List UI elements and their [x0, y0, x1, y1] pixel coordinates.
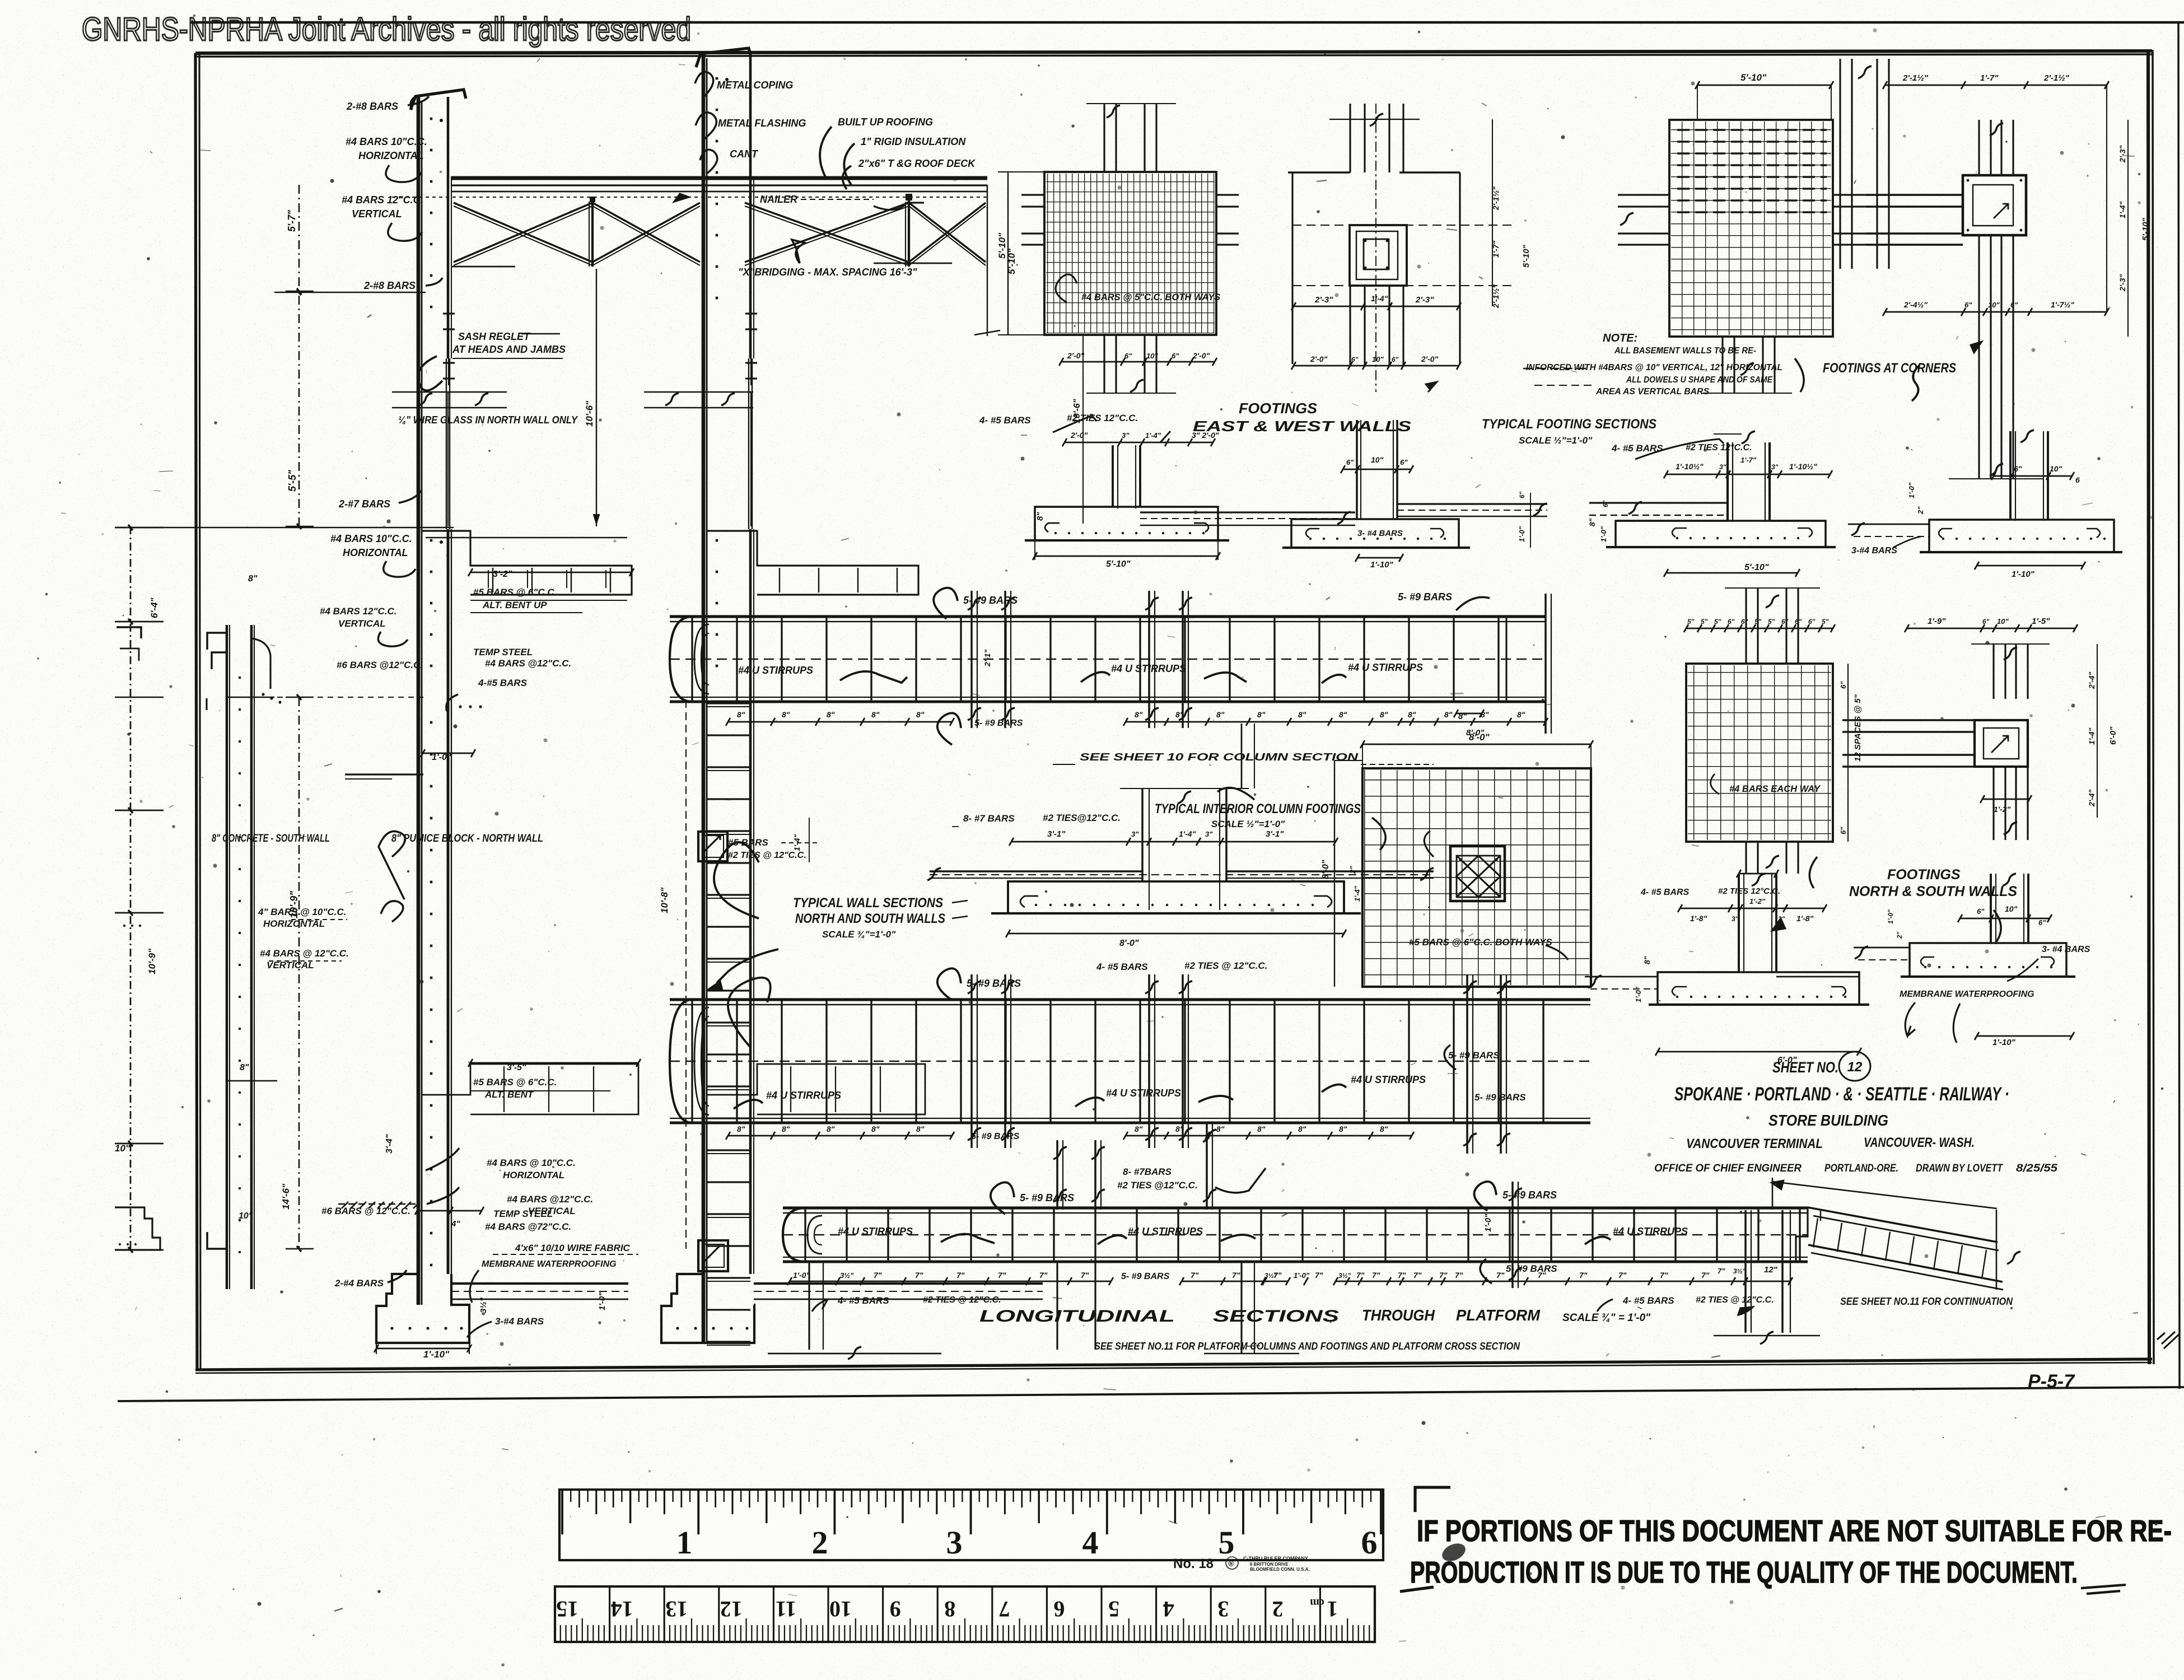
stamp underline mark	[1400, 1587, 1434, 1592]
svg-text:8": 8"	[916, 710, 925, 719]
wall A window glass line	[447, 392, 449, 526]
svg-text:1'-0": 1'-0"	[1294, 1271, 1310, 1280]
svg-text:12": 12"	[1764, 1265, 1778, 1275]
svg-text:IF PORTIONS OF THIS DOCUMENT A: IF PORTIONS OF THIS DOCUMENT ARE NOT SUI…	[1417, 1514, 2172, 1548]
svg-text:5": 5"	[1822, 618, 1829, 626]
wall A floor/dim lines	[274, 292, 426, 293]
svg-text:SEE SHEET NO.11 FOR PLATFORM C: SEE SHEET NO.11 FOR PLATFORM COLUMNS AND…	[1094, 1341, 1520, 1352]
svg-text:11: 11	[776, 1597, 797, 1622]
svg-text:8" PUMICE BLOCK - NORTH WALL: 8" PUMICE BLOCK - NORTH WALL	[391, 833, 543, 844]
svg-text:1'-7": 1'-7"	[1980, 73, 1999, 83]
svg-text:2'-4½": 2'-4½"	[1903, 300, 1928, 309]
svg-text:8": 8"	[737, 710, 745, 719]
wall section A - south wall concrete	[417, 97, 421, 1305]
svg-text:#4 BARS @12"C.C.: #4 BARS @12"C.C.	[507, 1194, 593, 1205]
svg-text:#4 BARS @12"C.C.: #4 BARS @12"C.C.	[485, 658, 571, 669]
svg-text:8": 8"	[1298, 1124, 1306, 1133]
svg-text:6'-0": 6'-0"	[2108, 726, 2118, 745]
svg-text:#2 TIES @ 12"C.C.: #2 TIES @ 12"C.C.	[1184, 960, 1267, 971]
svg-text:8'-0": 8'-0"	[1119, 939, 1139, 948]
svg-text:6: 6	[1361, 1524, 1378, 1561]
plan D2 - east west wall footing outline plan	[1349, 104, 1351, 172]
svg-text:8": 8"	[737, 1124, 745, 1133]
svg-text:2'-0": 2'-0"	[1421, 354, 1439, 363]
wall A rebar dots upper	[430, 118, 433, 120]
svg-text:7": 7"	[1496, 1271, 1505, 1280]
svg-text:#6 BARS @ 12"C.C.: #6 BARS @ 12"C.C.	[321, 1206, 410, 1216]
svg-text:FOOTINGS: FOOTINGS	[1239, 400, 1318, 417]
svg-text:5'-10": 5'-10"	[1744, 563, 1769, 572]
dim 10-6 right of wall A	[596, 269, 597, 526]
interior column footing - wall slab lines	[930, 870, 1142, 872]
svg-text:#4 U STIRRUPS: #4 U STIRRUPS	[1613, 1226, 1688, 1237]
plan I1 right dim	[1847, 664, 1849, 842]
svg-text:2": 2"	[1896, 931, 1903, 939]
wall B lintel at 1900	[707, 1064, 925, 1114]
svg-text:5": 5"	[1701, 618, 1708, 626]
svg-text:#4 U STIRRUPS: #4 U STIRRUPS	[1128, 1226, 1203, 1237]
svg-text:#2 TIES @ 12"C.C.: #2 TIES @ 12"C.C.	[1696, 1295, 1774, 1305]
svg-text:7": 7"	[956, 1271, 965, 1280]
svg-text:7": 7"	[1718, 1267, 1725, 1275]
svg-text:SASH REGLET: SASH REGLET	[458, 331, 531, 342]
svg-text:1: 1	[676, 1524, 693, 1561]
svg-text:8": 8"	[1339, 1124, 1347, 1133]
svg-text:5'-10": 5'-10"	[997, 232, 1007, 259]
svg-text:EAST & WEST WALLS: EAST & WEST WALLS	[1193, 418, 1412, 435]
svg-text:2'-3": 2'-3"	[1415, 295, 1434, 305]
interior column footing - column	[1141, 788, 1144, 881]
svg-text:8/25/55: 8/25/55	[2016, 1163, 2057, 1174]
wall B rebar dots	[716, 77, 718, 80]
svg-text:12: 12	[1847, 1060, 1863, 1075]
svg-text:10": 10"	[1988, 301, 2000, 309]
beam row 3 - platform longitudinal section	[783, 1206, 1808, 1209]
svg-text:VANCOUVER TERMINAL: VANCOUVER TERMINAL	[1686, 1136, 1823, 1151]
svg-text:2'-1": 2'-1"	[983, 649, 992, 667]
svg-text:14: 14	[611, 1597, 633, 1622]
svg-text:8": 8"	[1444, 710, 1453, 719]
svg-text:No. 18: No. 18	[1173, 1556, 1214, 1571]
svg-text:10'-6": 10'-6"	[584, 400, 595, 427]
svg-text:1'-4": 1'-4"	[1179, 829, 1196, 838]
svg-text:#4 BARS EACH WAY: #4 BARS EACH WAY	[1729, 784, 1821, 794]
svg-text:8'-0": 8'-0"	[1466, 728, 1485, 738]
svg-text:DRAWN BY LOVETT: DRAWN BY LOVETT	[1916, 1163, 2003, 1174]
svg-text:#6 BARS @12"C.C.: #6 BARS @12"C.C.	[337, 660, 423, 670]
svg-text:5- #9 BARS: 5- #9 BARS	[1448, 1050, 1500, 1061]
svg-text:8": 8"	[1380, 710, 1388, 719]
svg-text:3": 3"	[1771, 463, 1779, 471]
svg-text:#4 U STIRRUPS: #4 U STIRRUPS	[1351, 1074, 1426, 1085]
svg-text:3": 3"	[1205, 830, 1213, 838]
svg-text:8": 8"	[871, 1124, 880, 1133]
dim 1-9/6/10/6/1-5 row above S5 col	[1739, 873, 1776, 875]
svg-text:5": 5"	[1714, 618, 1721, 626]
svg-text:7": 7"	[1081, 1271, 1089, 1280]
svg-text:1'-7½": 1'-7½"	[2051, 300, 2074, 309]
svg-text:10": 10"	[2050, 464, 2062, 473]
svg-text:1'-8": 1'-8"	[1796, 914, 1814, 923]
svg-text:8": 8"	[871, 710, 880, 719]
svg-text:NAILER: NAILER	[760, 194, 797, 205]
svg-text:5'-7": 5'-7"	[286, 210, 297, 232]
svg-text:3'-4": 3'-4"	[385, 1134, 394, 1154]
svg-text:VERTICAL: VERTICAL	[267, 960, 314, 970]
svg-text:6": 6"	[1795, 618, 1802, 626]
svg-text:10": 10"	[2005, 904, 2018, 913]
svg-text:1'-0": 1'-0"	[1887, 909, 1894, 924]
svg-text:1'-0": 1'-0"	[1599, 526, 1608, 542]
beam row 3 column break right-mid	[1511, 1182, 1514, 1288]
svg-text:14'-6": 14'-6"	[281, 1183, 291, 1210]
svg-text:HORIZONTAL: HORIZONTAL	[343, 547, 408, 558]
platform ramp deck	[1808, 1207, 1998, 1242]
svg-text:BLOOMFIELD CONN. U.S.A.: BLOOMFIELD CONN. U.S.A.	[1250, 1567, 1310, 1572]
svg-text:2-#8 BARS: 2-#8 BARS	[363, 280, 416, 291]
svg-text:2'-3": 2'-3"	[2118, 145, 2127, 163]
svg-text:3": 3"	[1131, 830, 1139, 838]
svg-text:1'-0": 1'-0"	[1907, 482, 1916, 498]
svg-text:#2 TIES@12"C.C.: #2 TIES@12"C.C.	[1043, 813, 1121, 823]
dimension line 5ft-7in / 5ft-5in column	[298, 185, 300, 526]
svg-text:HORIZONTAL: HORIZONTAL	[503, 1170, 564, 1180]
svg-text:4-#5 BARS: 4-#5 BARS	[478, 678, 528, 688]
svg-text:SCALE ¾" = 1'-0": SCALE ¾" = 1'-0"	[1562, 1312, 1651, 1324]
svg-text:6": 6"	[2014, 464, 2022, 473]
svg-text:P-5-7: P-5-7	[2028, 1371, 2075, 1392]
svg-text:2: 2	[812, 1524, 828, 1561]
svg-text:#2 TIES @ 12"C.C.: #2 TIES @ 12"C.C.	[923, 1295, 1001, 1305]
svg-text:"X"BRIDGING - MAX. SPACING 16: "X"BRIDGING - MAX. SPACING 16'-3"	[738, 267, 917, 278]
svg-text:2'-0": 2'-0"	[1192, 351, 1210, 360]
wall section B - 8in pumice block north wall	[702, 54, 706, 1344]
svg-text:7": 7"	[1439, 1271, 1448, 1280]
svg-text:8": 8"	[1035, 512, 1045, 521]
svg-text:HORIZONTAL: HORIZONTAL	[358, 150, 424, 161]
svg-text:1'-2": 1'-2"	[1994, 805, 2011, 814]
svg-text:3½": 3½"	[840, 1271, 854, 1280]
plan E2 dims	[1885, 85, 2107, 86]
svg-text:8'-0": 8'-0"	[1321, 860, 1331, 879]
svg-text:8- #7BARS: 8- #7BARS	[1123, 1166, 1172, 1177]
svg-text:8": 8"	[827, 1124, 835, 1133]
svg-text:10'-8": 10'-8"	[659, 887, 670, 913]
svg-text:6 BRITTON DRIVE: 6 BRITTON DRIVE	[1250, 1562, 1289, 1567]
left margin dimension line	[130, 526, 132, 1252]
row2 right column down	[1206, 1123, 1208, 1210]
svg-text:8": 8"	[827, 710, 835, 719]
svg-text:5'-10": 5'-10"	[1740, 72, 1767, 83]
svg-text:1'-8": 1'-8"	[1690, 914, 1707, 923]
plan I1 wall strip	[1745, 588, 1747, 664]
svg-text:8": 8"	[1135, 1124, 1143, 1133]
platform ramp hatch ticks	[1813, 1218, 1818, 1247]
svg-text:cm: cm	[1310, 1597, 1324, 1609]
beam row 1 column break left	[970, 591, 973, 728]
svg-text:2'-1½": 2'-1½"	[1491, 284, 1500, 309]
svg-text:6": 6"	[2038, 918, 2046, 927]
svg-text:5- #9 BARS: 5- #9 BARS	[1121, 1272, 1170, 1281]
svg-text:7": 7"	[1660, 1271, 1668, 1280]
left margin curb detail	[115, 1207, 160, 1250]
cm ruler mm ticks	[1369, 1625, 1370, 1641]
svg-text:6": 6"	[1172, 352, 1179, 360]
svg-text:#5 BARS @ 6"C.C.: #5 BARS @ 6"C.C.	[473, 1077, 557, 1088]
svg-text:ALL BASEMENT WALLS TO BE RE-: ALL BASEMENT WALLS TO BE RE-	[1614, 346, 1756, 356]
svg-text:#4 BARS @ 5"C.C. BOTH WAYS: #4 BARS @ 5"C.C. BOTH WAYS	[1081, 292, 1220, 302]
footing plan I1 - grid	[1686, 664, 1833, 842]
svg-text:7": 7"	[1618, 1271, 1627, 1280]
sheet bottom edge line	[118, 1387, 2184, 1401]
plan D wall strips	[1103, 104, 1105, 172]
svg-text:1'-7": 1'-7"	[1740, 456, 1757, 464]
svg-text:1'-0": 1'-0"	[1483, 1214, 1493, 1232]
footing plan D - east and west walls	[1044, 172, 1216, 335]
svg-text:#2 TIES 12°C.C.: #2 TIES 12°C.C.	[1718, 886, 1780, 896]
plan D dimensions	[1007, 172, 1009, 335]
wall A basement floor hatch	[342, 1202, 348, 1208]
dim 5-10 under roof right	[987, 185, 988, 336]
svg-text:2-#7 BARS: 2-#7 BARS	[338, 498, 390, 510]
svg-text:2: 2	[1272, 1597, 1284, 1622]
svg-text:3- #4 BARS: 3- #4 BARS	[1357, 529, 1403, 538]
svg-text:MEMBRANE WATERPROOFING: MEMBRANE WATERPROOFING	[1900, 990, 2034, 999]
svg-text:1'-0": 1'-0"	[1518, 526, 1526, 542]
svg-text:4" BARS @ 10"C.C.: 4" BARS @ 10"C.C.	[258, 907, 346, 917]
svg-text:1'-7": 1'-7"	[1491, 240, 1500, 258]
svg-text:SECTIONS: SECTIONS	[1213, 1307, 1339, 1326]
svg-text:SEE SHEET 10 FOR COLUMN SECTI: SEE SHEET 10 FOR COLUMN SECTION	[1080, 752, 1359, 763]
svg-text:8": 8"	[1135, 710, 1143, 719]
svg-text:10: 10	[829, 1597, 852, 1622]
svg-text:#4 BARS 12"C.C.: #4 BARS 12"C.C.	[342, 194, 423, 206]
svg-text:10'-6": 10'-6"	[1072, 399, 1082, 423]
svg-text:6": 6"	[1781, 618, 1789, 626]
svg-text:8": 8"	[1298, 710, 1306, 719]
svg-text:2-#8 BARS: 2-#8 BARS	[346, 101, 398, 112]
svg-text:8": 8"	[1257, 1124, 1266, 1133]
X-bridging joists	[454, 203, 592, 262]
svg-text:7": 7"	[1232, 1271, 1240, 1280]
wall A rebar dots lower	[430, 721, 433, 724]
beam row 2 column breaks	[970, 974, 973, 1148]
beam row 3 dim row	[790, 1281, 1111, 1282]
svg-text:2'-4": 2'-4"	[2087, 671, 2096, 689]
plan I2 dims	[1907, 628, 2075, 629]
svg-text:3-#4 BARS: 3-#4 BARS	[495, 1316, 544, 1327]
plan E1 wall band verticals from top	[1839, 59, 1841, 269]
svg-text:C-THRU RULER COMPANY: C-THRU RULER COMPANY	[1243, 1556, 1308, 1561]
wall B pumice block ladder	[707, 702, 750, 704]
svg-text:#5 BARS @ 6"C.C.: #5 BARS @ 6"C.C.	[473, 587, 557, 598]
svg-text:MEMBRANE WATERPROOFING: MEMBRANE WATERPROOFING	[482, 1259, 617, 1269]
svg-text:FOOTINGS AT CORNERS: FOOTINGS AT CORNERS	[1823, 361, 1956, 376]
svg-text:5- #9 BARS: 5- #9 BARS	[967, 978, 1021, 989]
svg-text:7": 7"	[874, 1271, 882, 1280]
svg-text:10": 10"	[1371, 455, 1384, 464]
svg-text:3": 3"	[1719, 463, 1726, 471]
svg-text:7": 7"	[1372, 1271, 1380, 1280]
svg-text:7": 7"	[1455, 1271, 1463, 1280]
svg-text:INFORCED WITH #4BARS @ 10" VER: INFORCED WITH #4BARS @ 10" VERTICAL, 12"…	[1526, 363, 1782, 372]
svg-text:8- #7 BARS: 8- #7 BARS	[963, 813, 1015, 824]
svg-text:VERTICAL: VERTICAL	[528, 1206, 576, 1216]
footing section S2	[1356, 420, 1358, 519]
svg-text:4- #5 BARS: 4- #5 BARS	[1640, 888, 1690, 897]
ramp left step	[1796, 1207, 1808, 1262]
svg-text:5'-10": 5'-10"	[1106, 559, 1131, 569]
svg-text:SCALE ½"=1'-0": SCALE ½"=1'-0"	[1519, 435, 1593, 446]
svg-text:5- #9 BARS: 5- #9 BARS	[1506, 1263, 1557, 1274]
svg-text:NORTH AND SOUTH WALLS: NORTH AND SOUTH WALLS	[795, 911, 945, 926]
svg-text:CANT: CANT	[730, 148, 759, 160]
svg-text:1'-10": 1'-10"	[1370, 560, 1394, 570]
svg-text:AT HEADS AND JAMBS: AT HEADS AND JAMBS	[452, 344, 566, 355]
wall C dimension ties	[227, 697, 274, 698]
svg-text:7: 7	[999, 1597, 1010, 1622]
note block	[1523, 368, 1590, 369]
svg-text:#2 TIES @12"C.C.: #2 TIES @12"C.C.	[1117, 1180, 1198, 1191]
svg-text:1'-0": 1'-0"	[793, 1271, 810, 1280]
svg-text:OFFICE OF CHIEF ENGINEER: OFFICE OF CHIEF ENGINEER	[1654, 1163, 1802, 1174]
beam row 1 - longitudinal section	[670, 615, 1546, 618]
svg-text:6": 6"	[2010, 301, 2018, 309]
svg-text:7": 7"	[1579, 1271, 1588, 1280]
right sheet edge line	[2178, 22, 2180, 1389]
svg-text:ALT. BENT UP: ALT. BENT UP	[482, 600, 547, 610]
svg-text:1'-0": 1'-0"	[432, 753, 451, 762]
svg-text:6": 6"	[1741, 618, 1748, 626]
ink blob left of stamp line2	[1439, 1540, 1468, 1565]
svg-text:1'-2": 1'-2"	[1749, 897, 1766, 906]
svg-text:3: 3	[946, 1524, 963, 1561]
svg-text:1: 1	[1327, 1597, 1338, 1622]
column section square lower	[698, 1240, 728, 1271]
svg-text:8": 8"	[1642, 956, 1651, 964]
svg-text:3½": 3½"	[479, 1297, 488, 1313]
svg-text:GNRHS-NPRHA Joint Archives - a: GNRHS-NPRHA Joint Archives - all rights …	[82, 11, 691, 48]
svg-text:10": 10"	[1372, 355, 1384, 363]
svg-text:5'-10": 5'-10"	[1522, 244, 1531, 268]
svg-text:1'-5": 1'-5"	[2032, 617, 2050, 626]
beam row 3 right columns	[1744, 1210, 1747, 1333]
svg-text:3½": 3½"	[1264, 1272, 1277, 1280]
svg-text:2'-1½": 2'-1½"	[2043, 73, 2070, 83]
inch ruler	[559, 1490, 1383, 1560]
svg-text:7": 7"	[1413, 1271, 1422, 1280]
corner footing plan E2 outline	[1866, 195, 1963, 207]
svg-text:5- #9 BARS: 5- #9 BARS	[1474, 1092, 1526, 1103]
svg-text:6": 6"	[1346, 458, 1354, 466]
svg-text:2'-0": 2'-0"	[1070, 431, 1088, 440]
svg-text:8": 8"	[1175, 710, 1184, 719]
svg-text:3½": 3½"	[1338, 1272, 1351, 1280]
svg-text:2'-3": 2'-3"	[1314, 295, 1333, 305]
svg-text:7": 7"	[1191, 1271, 1199, 1280]
svg-text:8": 8"	[1588, 518, 1597, 526]
svg-text:8": 8"	[1175, 1124, 1184, 1133]
wall A rebar dots mid	[430, 539, 433, 542]
svg-text:6": 6"	[1400, 458, 1408, 466]
beam row 3 left support column	[808, 1262, 810, 1350]
svg-text:1'-0": 1'-0"	[1634, 986, 1642, 1002]
svg-text:PORTLAND-ORE.: PORTLAND-ORE.	[1824, 1163, 1898, 1174]
centimeter ruler	[555, 1586, 1375, 1642]
svg-text:#4 U STIRRUPS: #4 U STIRRUPS	[738, 665, 813, 676]
svg-text:12 SPACES @ 5": 12 SPACES @ 5"	[1853, 694, 1863, 762]
wall A footing	[376, 1274, 469, 1343]
column section square upper	[698, 832, 727, 861]
svg-text:THROUGH: THROUGH	[1362, 1306, 1435, 1324]
svg-text:5'-5": 5'-5"	[287, 470, 298, 492]
svg-text:7": 7"	[1538, 1271, 1546, 1280]
svg-text:NORTH & SOUTH WALLS: NORTH & SOUTH WALLS	[1849, 884, 2017, 899]
svg-text:6'-4": 6'-4"	[149, 597, 160, 618]
svg-text:3": 3"	[1122, 431, 1130, 440]
svg-text:5- #9 BARS: 5- #9 BARS	[1020, 1192, 1074, 1203]
wall A coping cap	[410, 90, 466, 110]
svg-text:6": 6"	[1964, 301, 1972, 309]
svg-text:10": 10"	[239, 1211, 253, 1221]
svg-text:2": 2"	[1348, 866, 1357, 874]
column under row1 right	[1241, 724, 1243, 788]
svg-text:7": 7"	[1315, 1271, 1323, 1280]
beam row 2 dim row	[728, 1135, 952, 1137]
svg-text:1'-4": 1'-4"	[2118, 201, 2127, 218]
svg-text:1'-4": 1'-4"	[2087, 727, 2096, 745]
svg-text:#4 BARS @72"C.C.: #4 BARS @72"C.C.	[485, 1221, 571, 1232]
svg-text:STORE BUILDING: STORE BUILDING	[1768, 1112, 1888, 1129]
interior column footing plan K - grid	[1362, 768, 1591, 987]
svg-text:1'-4": 1'-4"	[1353, 885, 1361, 902]
svg-text:2'-3": 2'-3"	[2118, 274, 2127, 292]
footing plan I2 - outline	[1842, 720, 1975, 732]
svg-text:1'-0": 1'-0"	[598, 1292, 607, 1310]
svg-text:2'-4": 2'-4"	[2087, 789, 2096, 807]
svg-text:8": 8"	[1408, 710, 1416, 719]
plan I1 dim row top	[1686, 628, 1833, 629]
svg-text:4: 4	[1082, 1524, 1099, 1561]
svg-text:5- #9 BARS: 5- #9 BARS	[974, 718, 1023, 728]
svg-text:#5 BARS @ 6"C.C. BOTH WAYS: #5 BARS @ 6"C.C. BOTH WAYS	[1409, 937, 1552, 948]
beam row 3 mid column	[1240, 1262, 1242, 1354]
svg-text:5: 5	[1108, 1597, 1119, 1622]
svg-text:6: 6	[1053, 1597, 1065, 1622]
svg-text:1'-10": 1'-10"	[423, 1349, 450, 1360]
platform ramp right end	[1996, 1210, 1998, 1290]
svg-text:8": 8"	[1216, 710, 1225, 719]
svg-text:7": 7"	[1356, 1271, 1365, 1280]
svg-text:7": 7"	[915, 1271, 923, 1280]
svg-text:SEE SHEET NO.11 FOR CONTINUAT: SEE SHEET NO.11 FOR CONTINUATION	[1840, 1296, 2013, 1307]
svg-text:2'-1½": 2'-1½"	[1902, 73, 1929, 83]
svg-text:#4 BARS @ 10"C.C.: #4 BARS @ 10"C.C.	[487, 1158, 576, 1168]
svg-text:METAL FLASHING: METAL FLASHING	[718, 118, 806, 129]
svg-text:6": 6"	[1839, 827, 1847, 834]
svg-text:6": 6"	[1124, 352, 1132, 360]
svg-text:8": 8"	[916, 1124, 925, 1133]
svg-text:#4 BARS 10"C.C.: #4 BARS 10"C.C.	[330, 533, 412, 544]
svg-text:BUILT UP ROOFING: BUILT UP ROOFING	[838, 116, 933, 128]
svg-text:4- #5 BARS: 4- #5 BARS	[1622, 1295, 1674, 1306]
svg-text:8": 8"	[1517, 710, 1525, 719]
wall A lintel at 940	[422, 531, 632, 595]
svg-text:5": 5"	[1768, 618, 1775, 626]
svg-text:SPOKANE · PORTLAND · & · SEATT: SPOKANE · PORTLAND · & · SEATTLE · RAILW…	[1674, 1084, 2009, 1105]
svg-text:5'-10": 5'-10"	[2141, 217, 2150, 241]
svg-text:3": 3"	[1732, 915, 1739, 923]
